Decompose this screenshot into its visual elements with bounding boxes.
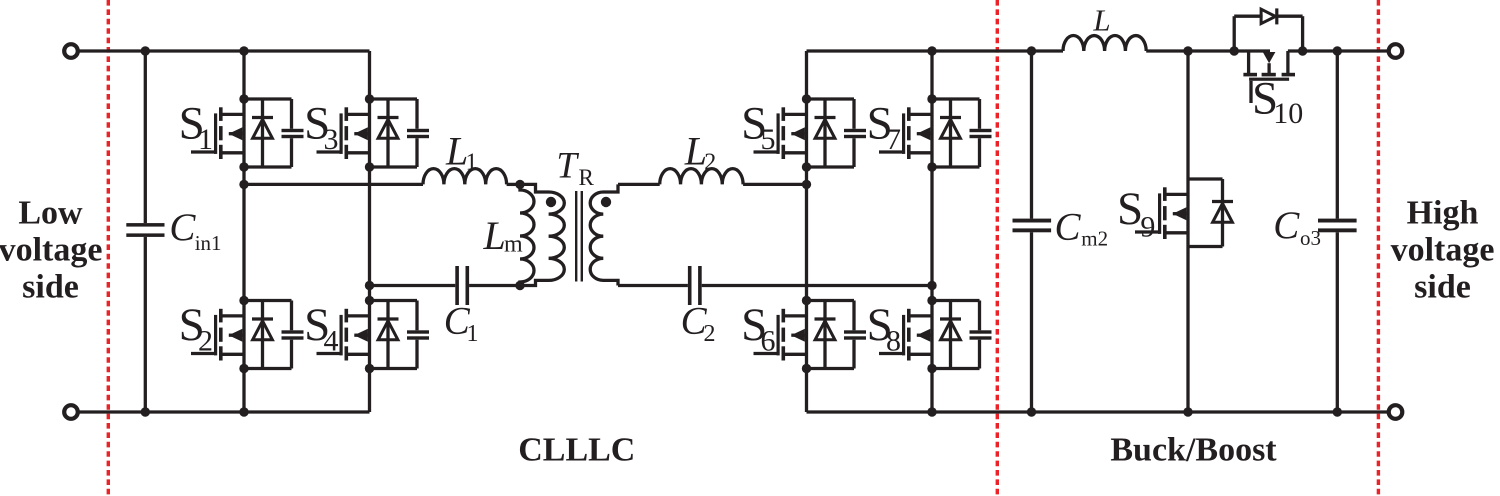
- label S9: [1117, 183, 1155, 244]
- label S6: [741, 299, 775, 357]
- node Co3 bottom: [1333, 407, 1342, 416]
- node leg S7/S8 top rail: [927, 46, 936, 55]
- wire Co3 branch upper: [1336, 51, 1339, 219]
- node S3/S4 midpoint: [365, 281, 374, 290]
- body diode of S1: [252, 99, 273, 167]
- wire L2 to S5/S6 midpoint: [743, 183, 806, 186]
- wire top rail between L and S10: [1146, 49, 1270, 52]
- wire S10 diode loop top-left: [1234, 15, 1262, 18]
- svg-text:R: R: [579, 165, 595, 190]
- wire S2 drain branch: [244, 299, 292, 302]
- wire from S3/S4 midpoint to C1: [370, 284, 456, 287]
- wire L1 to transformer: [507, 183, 520, 186]
- svg-text:6: 6: [761, 325, 776, 358]
- terminal top-right: [1389, 44, 1403, 58]
- node S3 drain: [365, 94, 374, 103]
- label Lm: [483, 213, 524, 258]
- node S7 source: [927, 162, 936, 171]
- svg-text:o3: o3: [1300, 226, 1321, 250]
- inductor L2: [660, 169, 743, 185]
- terminal bottom-left: [64, 405, 78, 419]
- svg-text:Lowvoltageside: Lowvoltageside: [0, 195, 102, 306]
- label S3: [304, 98, 338, 156]
- svg-text:3: 3: [324, 123, 339, 156]
- label Co3: [1273, 204, 1321, 250]
- transformer TR core: [576, 191, 582, 282]
- svg-text:L: L: [483, 213, 506, 258]
- wire S9 diode branch bottom: [1188, 245, 1223, 248]
- svg-text:m: m: [504, 232, 523, 258]
- node Cin1 bottom: [141, 407, 150, 416]
- wire S4 drain branch: [370, 299, 418, 302]
- wire leg S1/S2: [242, 51, 245, 412]
- label S1: [179, 98, 213, 156]
- svg-text:7: 7: [886, 123, 901, 156]
- label S10: [1252, 73, 1303, 131]
- wire S6 source branch: [807, 367, 855, 370]
- body diode of S9: [1212, 179, 1233, 247]
- svg-text:2: 2: [198, 325, 213, 358]
- terminal top-left: [64, 44, 78, 58]
- node S2 source: [239, 364, 248, 373]
- wire leg S7/S8: [930, 51, 933, 412]
- wire Cm2 branch lower: [1030, 232, 1033, 412]
- label CLLLC: [518, 432, 635, 469]
- wire S9 diode branch top: [1188, 177, 1223, 180]
- node S1 drain: [239, 94, 248, 103]
- transistor S6 (MOSFET): [754, 309, 807, 361]
- svg-text:m2: m2: [1081, 227, 1108, 251]
- node leg S1/S2 top rail: [239, 46, 248, 55]
- wire S10 diode loop left: [1233, 16, 1236, 51]
- snubber capacitor of S1: [282, 99, 304, 167]
- label L (buck/boost): [1092, 2, 1110, 37]
- wire top rail (left bridge): [78, 49, 370, 52]
- transistor S8 (MOSFET): [879, 309, 932, 361]
- wire Cin1 branch lower: [144, 237, 147, 412]
- svg-text:C: C: [169, 206, 196, 249]
- wire S9 branch: [1186, 51, 1189, 412]
- svg-text:Highvoltageside: Highvoltageside: [1391, 195, 1495, 306]
- boundary dashed line (high-voltage side): [1377, 0, 1380, 496]
- node S9 top: [1183, 46, 1192, 55]
- node S7/S8 midpoint: [927, 281, 936, 290]
- wire S4 source branch: [370, 367, 418, 370]
- wire C2 to S7/S8 midpoint: [702, 284, 932, 287]
- body diode of S3: [378, 99, 399, 167]
- polarity dot primary: [546, 197, 556, 207]
- label L1: [445, 128, 478, 175]
- wire S2 source branch: [244, 367, 292, 370]
- body diode of S8: [940, 301, 961, 369]
- wire transformer to L2: [618, 183, 660, 186]
- body diode of S6: [815, 301, 836, 369]
- node S10 left: [1230, 46, 1239, 55]
- wire bottom rail (right section): [807, 410, 1389, 413]
- node S1/S2 midpoint: [239, 180, 248, 189]
- wire S6 drain branch: [807, 299, 855, 302]
- svg-text:L: L: [1092, 2, 1110, 37]
- diode of S10: [1261, 8, 1277, 24]
- wire top rail after S10: [1288, 49, 1389, 52]
- svg-text:8: 8: [886, 325, 901, 358]
- svg-text:1: 1: [198, 123, 213, 156]
- label S7: [867, 98, 901, 156]
- wire leg S3/S4: [368, 51, 371, 412]
- wire S1 source branch: [244, 165, 292, 168]
- snubber capacitor of S6: [844, 301, 866, 369]
- node S8 source: [927, 364, 936, 373]
- snubber capacitor of S8: [970, 301, 992, 369]
- wire top rail (right section) before inductor L: [807, 49, 1064, 52]
- inductor L1: [423, 169, 507, 185]
- wire Cm2 branch upper: [1030, 51, 1033, 219]
- svg-text:in1: in1: [195, 231, 222, 255]
- node S5/S6 midpoint: [802, 180, 811, 189]
- wire S3 drain branch: [370, 97, 418, 100]
- wire S5 source branch: [807, 165, 855, 168]
- wire S5 drain branch: [807, 97, 855, 100]
- polarity dot secondary: [601, 197, 611, 207]
- label S2: [179, 299, 213, 357]
- svg-text:Buck/Boost: Buck/Boost: [1110, 432, 1277, 469]
- wire from S1/S2 midpoint to L1: [244, 183, 423, 186]
- wire S8 source branch: [932, 367, 980, 370]
- node leg S1/S2 bottom rail: [239, 407, 248, 416]
- boundary dashed line (CLLLC / Buck-Boost): [996, 0, 999, 496]
- label Low voltage side: [0, 195, 102, 306]
- capacitor Cin1: [126, 223, 164, 237]
- body diode of S5: [815, 99, 836, 167]
- wire S7 source branch: [932, 165, 980, 168]
- snubber capacitor of S4: [407, 301, 429, 369]
- svg-text:1: 1: [467, 321, 479, 347]
- capacitor C1: [455, 266, 469, 305]
- transistor S2 (MOSFET): [191, 309, 244, 361]
- wire leg S5/S6: [805, 51, 808, 412]
- node S6 drain: [802, 296, 811, 305]
- wire Co3 branch lower: [1336, 232, 1339, 412]
- capacitor Co3: [1318, 219, 1357, 233]
- node transformer primary top: [515, 180, 524, 189]
- wire Cin1 branch upper: [144, 51, 147, 223]
- node transformer primary bottom: [515, 281, 524, 290]
- wire S7 drain branch: [932, 97, 980, 100]
- label Cm2: [1055, 206, 1109, 251]
- transistor S10 (MOSFET, series on rail): [1243, 51, 1295, 103]
- label S8: [867, 299, 901, 357]
- body diode of S4: [378, 301, 399, 369]
- node S7 drain: [927, 94, 936, 103]
- svg-text:9: 9: [1140, 211, 1155, 244]
- node S8 drain: [927, 296, 936, 305]
- transformer TR primary winding: [520, 184, 564, 285]
- wire S10 diode loop right: [1301, 16, 1304, 51]
- node leg S7/S8 bottom rail: [927, 407, 936, 416]
- node Cin1 top: [141, 46, 150, 55]
- svg-text:4: 4: [324, 325, 339, 358]
- label S4: [304, 299, 338, 357]
- svg-text:5: 5: [761, 123, 776, 156]
- svg-text:C: C: [1055, 206, 1082, 249]
- svg-text:2: 2: [704, 321, 716, 347]
- wire S3 source branch: [370, 165, 418, 168]
- node S5 source: [802, 162, 811, 171]
- wire bottom rail (left bridge): [78, 410, 370, 413]
- wire transformer to C2: [618, 284, 688, 287]
- label Buck/Boost: [1110, 432, 1277, 469]
- boundary dashed line (low-voltage side): [107, 0, 110, 496]
- label TR: [556, 146, 594, 191]
- label C2: [681, 300, 716, 347]
- svg-text:10: 10: [1273, 97, 1303, 130]
- body diode of S2: [252, 301, 273, 369]
- transistor S1 (MOSFET): [191, 107, 244, 159]
- capacitor Cm2: [1013, 219, 1052, 233]
- svg-text:1: 1: [466, 150, 478, 176]
- node S2 drain: [239, 296, 248, 305]
- transistor S5 (MOSFET): [754, 107, 807, 159]
- transistor S9 (MOSFET): [1135, 187, 1188, 239]
- terminal bottom-right: [1389, 405, 1403, 419]
- svg-text:T: T: [556, 146, 579, 187]
- wire S8 drain branch: [932, 299, 980, 302]
- inductor Lm: [520, 184, 534, 285]
- label S5: [741, 98, 775, 156]
- node S5 drain: [802, 94, 811, 103]
- svg-text:S: S: [1117, 183, 1143, 235]
- snubber capacitor of S5: [844, 99, 866, 167]
- svg-text:2: 2: [704, 150, 716, 176]
- transistor S3 (MOSFET): [317, 107, 370, 159]
- label High voltage side: [1391, 195, 1495, 306]
- label Cin1: [169, 206, 221, 255]
- node S1 source: [239, 162, 248, 171]
- wire S1 drain branch: [244, 97, 292, 100]
- node S4 drain: [365, 296, 374, 305]
- inductor L (buck/boost): [1063, 35, 1146, 51]
- wire S10 diode loop top-right: [1277, 15, 1303, 18]
- transistor S7 (MOSFET): [879, 107, 932, 159]
- node Cm2 bottom: [1027, 407, 1036, 416]
- body diode of S7: [940, 99, 961, 167]
- node Cm2 top: [1027, 46, 1036, 55]
- capacitor C2: [688, 266, 702, 305]
- snubber capacitor of S2: [282, 301, 304, 369]
- node S4 source: [365, 364, 374, 373]
- transistor S4 (MOSFET): [317, 309, 370, 361]
- snubber capacitor of S3: [407, 99, 429, 167]
- node S6 source: [802, 364, 811, 373]
- node S9 bottom: [1183, 407, 1192, 416]
- label L2: [684, 128, 717, 175]
- transformer TR secondary winding: [590, 184, 618, 285]
- svg-text:C: C: [1273, 204, 1300, 247]
- node S3 source: [365, 162, 374, 171]
- svg-text:CLLLC: CLLLC: [518, 432, 635, 469]
- wire C1 to transformer: [469, 284, 520, 287]
- label C1: [444, 300, 479, 347]
- node S10 right: [1298, 46, 1307, 55]
- snubber capacitor of S7: [970, 99, 992, 167]
- node Co3 top: [1333, 46, 1342, 55]
